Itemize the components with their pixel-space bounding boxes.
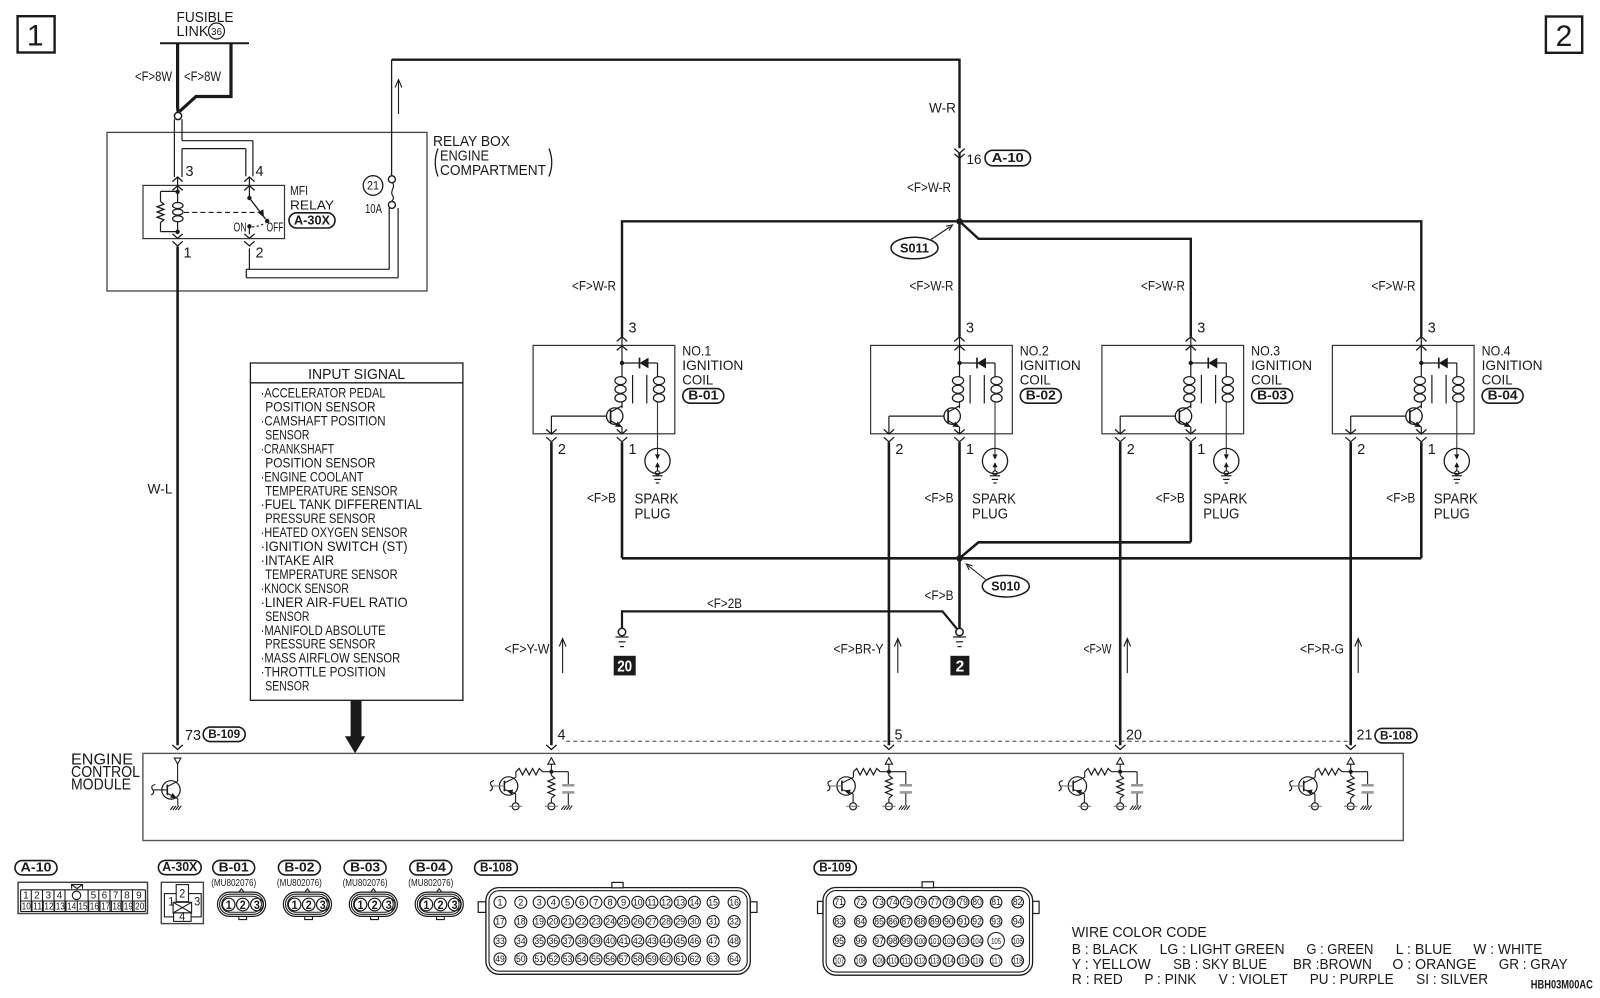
MFI relay switch	[247, 196, 251, 200]
ground point 2	[956, 628, 963, 635]
svg-text:20: 20	[135, 901, 144, 913]
svg-text:55: 55	[591, 954, 601, 964]
svg-text:17: 17	[495, 917, 505, 927]
svg-text:(MU802076): (MU802076)	[211, 877, 256, 889]
svg-text:57: 57	[619, 954, 629, 964]
svg-text:2: 2	[179, 887, 185, 901]
junction S010	[956, 555, 962, 561]
ignition coil B-03 box	[1102, 345, 1244, 433]
svg-text:80: 80	[972, 897, 982, 907]
coil B-02 secondary winding	[994, 363, 996, 377]
svg-text:18: 18	[112, 901, 121, 913]
fusible link bus bar	[160, 42, 249, 44]
svg-text:52: 52	[549, 954, 559, 964]
svg-text:37: 37	[563, 936, 573, 946]
svg-text:2: 2	[895, 441, 903, 458]
svg-text:<F>B: <F>B	[587, 490, 616, 505]
coil B-01 base wire	[551, 415, 606, 417]
MFI relay pin 4 terminal	[244, 177, 254, 182]
svg-text:10: 10	[22, 901, 31, 913]
MFI relay resistor	[160, 191, 162, 201]
spark plug 4	[1444, 448, 1469, 473]
svg-text:COIL: COIL	[682, 372, 713, 388]
svg-text:29: 29	[676, 917, 686, 927]
ECM driver 21: capacitor	[1351, 771, 1368, 773]
svg-text:100: 100	[916, 936, 926, 946]
connector A-10 pin 16 inline	[954, 149, 964, 154]
wire from No.3 coil pin 1 to ground bus	[960, 542, 1191, 558]
svg-text:10: 10	[633, 897, 643, 907]
coil B-03 core	[1200, 375, 1202, 403]
ECM driver 21: collector resistor	[1342, 771, 1351, 773]
page number box 2	[1546, 17, 1582, 53]
svg-text:97: 97	[874, 936, 884, 946]
ground bus wire	[622, 557, 1421, 560]
svg-text:2: 2	[372, 900, 378, 912]
svg-text:15: 15	[78, 901, 87, 913]
svg-text:62: 62	[690, 954, 700, 964]
wire <F>B from coil B-01 pin 1	[621, 442, 624, 558]
svg-text:59: 59	[647, 954, 657, 964]
svg-text:3: 3	[537, 897, 542, 907]
svg-text:77: 77	[930, 897, 940, 907]
svg-text:114: 114	[944, 956, 954, 966]
ECM driver circuit for pin 4: terminal	[546, 745, 556, 750]
svg-text:20: 20	[549, 917, 559, 927]
coil B-01 power transistor	[607, 408, 623, 424]
svg-text:108: 108	[855, 956, 865, 966]
svg-text:76: 76	[916, 897, 926, 907]
svg-text:5: 5	[565, 897, 570, 907]
svg-text:44: 44	[661, 936, 671, 946]
page number box 1	[18, 16, 55, 52]
svg-text:A-30X: A-30X	[162, 860, 198, 874]
svg-text:16: 16	[729, 897, 739, 907]
svg-text:109: 109	[874, 956, 884, 966]
svg-text:51: 51	[534, 954, 544, 964]
coil B-02 base wire	[889, 415, 944, 417]
svg-text:3: 3	[1197, 320, 1205, 337]
coil B-01 secondary winding	[657, 363, 659, 377]
coil B-04 pin 1 terminal	[1416, 429, 1426, 434]
svg-text:1: 1	[226, 900, 233, 912]
coil B-04 core	[1431, 375, 1433, 403]
relay box (engine compartment) outline	[107, 132, 427, 291]
svg-text:116: 116	[972, 956, 982, 966]
connector B-108 pinout	[475, 861, 518, 876]
svg-text:74: 74	[888, 897, 898, 907]
svg-text:14: 14	[67, 901, 76, 913]
svg-text:25: 25	[619, 917, 629, 927]
svg-text:101: 101	[930, 936, 940, 946]
svg-text:<F>B: <F>B	[925, 588, 954, 603]
coil B-01 pin 3 terminal	[617, 337, 627, 342]
svg-text:46: 46	[690, 936, 700, 946]
coil B-02 primary winding	[959, 363, 961, 377]
svg-text:1: 1	[292, 900, 299, 912]
svg-text:2: 2	[1127, 441, 1135, 458]
coil B-02 pin 3 terminal	[954, 337, 964, 342]
coil B-04 pin 3 terminal	[1416, 337, 1426, 342]
wire <F>Y-W coil1 pin2 to ECM pin 4	[550, 442, 553, 745]
svg-text:75: 75	[901, 897, 911, 907]
coil B-01 pin 2 terminal	[546, 429, 556, 434]
ignition coil B-01 box	[533, 345, 675, 433]
ECM pin 73 input transistor	[172, 745, 182, 750]
svg-text:<F>W-R: <F>W-R	[907, 180, 951, 195]
svg-text:61: 61	[676, 954, 686, 964]
svg-text:A-30X: A-30X	[294, 213, 331, 227]
wire <F>W coil3 pin2 to ECM pin 20	[1119, 442, 1122, 745]
svg-text:9: 9	[621, 897, 626, 907]
svg-text:1: 1	[27, 20, 44, 53]
svg-text:B-01: B-01	[688, 389, 718, 403]
svg-text:81: 81	[991, 897, 1001, 907]
ECM driver 21: emitter terminal	[1314, 794, 1316, 803]
wire from fuse to top bus	[391, 60, 393, 176]
svg-text:7: 7	[593, 897, 598, 907]
svg-text:71: 71	[834, 897, 844, 907]
svg-text:99: 99	[901, 936, 911, 946]
svg-text:49: 49	[495, 954, 505, 964]
current direction arrow	[398, 81, 400, 115]
ECM driver circuit for pin 21: terminal	[1346, 745, 1356, 750]
wire <F>8W right leg	[180, 43, 232, 111]
svg-text:82: 82	[1013, 897, 1023, 907]
svg-text:26: 26	[633, 917, 643, 927]
svg-text:<F>BR-Y: <F>BR-Y	[834, 641, 884, 656]
svg-text:50: 50	[516, 954, 526, 964]
coil B-01 diode	[620, 361, 624, 365]
wire <F>8W left leg	[176, 43, 180, 112]
svg-text:2: 2	[956, 659, 965, 676]
svg-text:16: 16	[90, 901, 99, 913]
MFI relay box outline	[143, 185, 285, 238]
coil B-03 base wire	[1120, 415, 1175, 417]
svg-text:<F>W-R: <F>W-R	[1372, 279, 1416, 294]
svg-text:60: 60	[661, 954, 671, 964]
coil B-01 core	[632, 375, 634, 403]
coil B-02 diode	[957, 361, 961, 365]
svg-text:42: 42	[633, 936, 643, 946]
svg-text:53: 53	[563, 954, 573, 964]
svg-text:<F>W-R: <F>W-R	[572, 279, 616, 294]
svg-text:SPARK: SPARK	[635, 492, 679, 508]
svg-text:<F>Y-W: <F>Y-W	[505, 641, 550, 656]
input signal box	[250, 363, 463, 700]
svg-text:RELAY: RELAY	[290, 198, 334, 213]
svg-text:111: 111	[901, 956, 911, 966]
svg-text:21: 21	[367, 181, 379, 193]
svg-text:SPARK: SPARK	[1434, 492, 1478, 508]
svg-text:IGNITION: IGNITION	[1482, 357, 1543, 373]
svg-text:2: 2	[438, 900, 444, 912]
svg-text:NO.4: NO.4	[1482, 342, 1511, 358]
ECM driver 4: capacitor	[551, 771, 568, 773]
fuse 21 10A	[363, 176, 383, 196]
svg-text:93: 93	[991, 916, 1001, 926]
svg-text:13: 13	[676, 897, 686, 907]
svg-text:4: 4	[551, 897, 556, 907]
svg-text:73: 73	[185, 728, 201, 744]
svg-text:ON: ON	[234, 221, 247, 235]
svg-text:88: 88	[916, 916, 926, 926]
svg-text:<F>2B: <F>2B	[707, 596, 742, 611]
svg-text:117: 117	[991, 956, 1001, 966]
ground point 20	[618, 628, 625, 635]
svg-text:107: 107	[834, 956, 844, 966]
connector B-04 pinout	[410, 860, 452, 875]
svg-text:45: 45	[676, 936, 686, 946]
svg-text:2: 2	[306, 900, 312, 912]
svg-text:3: 3	[629, 320, 637, 337]
ECM driver 20: capacitor	[1120, 771, 1137, 773]
svg-text:1: 1	[1197, 441, 1205, 458]
svg-text:110: 110	[888, 956, 898, 966]
svg-text:86: 86	[888, 916, 898, 926]
coil B-02 power transistor	[944, 408, 960, 424]
ECM driver 5: capacitor	[889, 771, 906, 773]
svg-text:A-10: A-10	[21, 859, 52, 874]
svg-text:2: 2	[518, 897, 523, 907]
svg-text:COIL: COIL	[1020, 372, 1051, 388]
svg-text:19: 19	[534, 917, 544, 927]
svg-text:B-02: B-02	[1026, 389, 1056, 403]
svg-text:94: 94	[1013, 916, 1023, 926]
svg-text:IGNITION: IGNITION	[1251, 357, 1312, 373]
svg-text:INPUT SIGNAL: INPUT SIGNAL	[308, 367, 405, 383]
svg-text:PLUG: PLUG	[1434, 506, 1470, 522]
svg-text:115: 115	[958, 956, 968, 966]
svg-text:24: 24	[605, 917, 615, 927]
svg-text:SPARK: SPARK	[1203, 492, 1247, 508]
svg-text:43: 43	[647, 936, 657, 946]
input signal arrow to ECM	[345, 701, 365, 754]
MFI relay pin 2 terminal	[248, 226, 250, 234]
svg-text:IGNITION: IGNITION	[682, 357, 743, 373]
ECM driver 5: collector resistor	[880, 771, 889, 773]
coil B-04 primary winding	[1420, 363, 1422, 377]
ignition coil B-02 box	[871, 345, 1013, 433]
svg-text:6: 6	[579, 897, 584, 907]
svg-text:102: 102	[944, 936, 954, 946]
coil B-04 power transistor	[1406, 408, 1422, 424]
coil B-03 primary winding	[1190, 363, 1192, 377]
spark plug 3	[1214, 448, 1239, 473]
svg-text:(MU802076): (MU802076)	[343, 877, 388, 889]
svg-text:89: 89	[930, 916, 940, 926]
hollow wire from MFI relay pin 2 to fuse	[248, 248, 250, 269]
svg-text:12: 12	[661, 897, 671, 907]
svg-text:B-03: B-03	[350, 860, 380, 874]
coil B-03 diode	[1189, 361, 1193, 365]
svg-text:17: 17	[101, 901, 110, 913]
svg-text:B-108: B-108	[1380, 728, 1412, 742]
svg-text:48: 48	[729, 936, 739, 946]
svg-text:<F>R-G: <F>R-G	[1300, 641, 1344, 656]
svg-text:118: 118	[1013, 956, 1023, 966]
svg-text:19: 19	[124, 901, 133, 913]
svg-text:30: 30	[690, 917, 700, 927]
wire <F>R-G coil4 pin2 to ECM pin 21	[1349, 442, 1352, 745]
MFI relay connector A-30X capsule	[289, 213, 335, 228]
svg-text:<F>B: <F>B	[925, 490, 954, 505]
MFI relay coil	[175, 190, 179, 194]
svg-text:1: 1	[358, 900, 365, 912]
coil B-02 pin 1 terminal	[954, 429, 964, 434]
svg-text:PU : PURPLE: PU : PURPLE	[1310, 971, 1394, 988]
svg-text:HBH03M00AC: HBH03M00AC	[1531, 978, 1593, 992]
svg-text:V : VIOLET: V : VIOLET	[1219, 971, 1288, 988]
svg-text:98: 98	[888, 936, 898, 946]
svg-text:NO.2: NO.2	[1020, 342, 1049, 358]
connector B-109 pinout	[814, 861, 856, 875]
svg-text:15: 15	[708, 897, 718, 907]
ECM driver 5: emitter terminal	[852, 794, 854, 803]
svg-text:104: 104	[972, 936, 982, 946]
svg-text:14: 14	[690, 897, 700, 907]
svg-text:11: 11	[647, 897, 657, 907]
svg-text:1: 1	[966, 441, 974, 458]
svg-text:<F>8W: <F>8W	[135, 69, 172, 84]
svg-text:SI : SILVER: SI : SILVER	[1416, 971, 1488, 988]
ECM driver 21: pull resistor	[1350, 772, 1352, 776]
svg-text:85: 85	[874, 916, 884, 926]
connector A-10 pinout	[15, 861, 57, 875]
svg-text:84: 84	[856, 916, 866, 926]
svg-text:PLUG: PLUG	[1203, 506, 1239, 522]
svg-text:58: 58	[633, 954, 643, 964]
svg-text:COMPARTMENT: COMPARTMENT	[440, 162, 546, 179]
coil B-04 secondary winding	[1456, 363, 1458, 377]
coil B-01 primary winding	[621, 363, 623, 377]
svg-text:<F>B: <F>B	[1156, 490, 1185, 505]
svg-text:2: 2	[240, 900, 246, 912]
svg-text:10A: 10A	[365, 202, 382, 216]
svg-text:8: 8	[608, 897, 613, 907]
svg-text:3: 3	[186, 163, 194, 180]
svg-text:105: 105	[991, 936, 1001, 946]
engine control module box	[143, 753, 1403, 840]
svg-text:B-108: B-108	[480, 861, 512, 875]
svg-text:COIL: COIL	[1251, 372, 1282, 388]
svg-text:33: 33	[495, 936, 505, 946]
svg-text:16: 16	[967, 151, 982, 167]
ECM driver 4: transistor	[499, 777, 517, 795]
svg-text:41: 41	[619, 936, 629, 946]
ECM driver 5: transistor	[837, 777, 855, 795]
svg-text:40: 40	[605, 936, 615, 946]
svg-text:11: 11	[33, 901, 42, 913]
svg-text:4: 4	[179, 910, 185, 924]
svg-text:W-R: W-R	[929, 101, 956, 116]
svg-text:B-109: B-109	[819, 860, 851, 874]
wire <F>W-R to S011	[958, 153, 960, 221]
svg-text:63: 63	[708, 954, 718, 964]
wire <F>B from coil B-04 pin 1	[1420, 442, 1423, 558]
svg-text:P : PINK: P : PINK	[1144, 971, 1196, 988]
svg-text:<F>B: <F>B	[1386, 490, 1415, 505]
svg-text:NO.1: NO.1	[682, 342, 711, 358]
wire W-R to No.4 ignition coil	[960, 221, 1422, 336]
svg-text:112: 112	[916, 956, 926, 966]
svg-text:<F>8W: <F>8W	[184, 69, 221, 84]
ECM driver 4: collector resistor	[543, 771, 552, 773]
coil B-03 pin 3 terminal	[1186, 337, 1196, 342]
svg-text:12: 12	[44, 901, 53, 913]
svg-text:PLUG: PLUG	[972, 506, 1008, 522]
MFI relay armature dashed link	[184, 211, 259, 213]
svg-text:18: 18	[516, 917, 526, 927]
MFI relay pin 3 terminal	[172, 177, 182, 182]
svg-text:<F>W-R: <F>W-R	[910, 279, 954, 294]
svg-text:SPARK: SPARK	[972, 492, 1016, 508]
svg-text:R : RED: R : RED	[1072, 971, 1123, 988]
wire <F>B from coil B-03 pin 1	[1190, 442, 1193, 542]
ECM driver circuit for pin 20: terminal	[1115, 745, 1125, 750]
svg-text:(MU802076): (MU802076)	[277, 877, 322, 889]
svg-text:36: 36	[211, 26, 222, 38]
ECM driver 20: collector resistor	[1111, 771, 1120, 773]
svg-text:<F>W-R: <F>W-R	[1141, 279, 1185, 294]
svg-text:103: 103	[958, 936, 968, 946]
coil B-03 pin 2 terminal	[1115, 429, 1125, 434]
svg-text:34: 34	[516, 936, 526, 946]
svg-text:3: 3	[1428, 320, 1436, 337]
ECM driver 5: pull resistor	[888, 772, 890, 776]
wire W-R to No.2 ignition coil	[958, 221, 960, 336]
svg-text:3: 3	[320, 900, 326, 912]
svg-text:32: 32	[729, 917, 739, 927]
svg-text:90: 90	[944, 916, 954, 926]
svg-text:B-04: B-04	[1488, 389, 1518, 403]
svg-text:87: 87	[901, 916, 911, 926]
svg-text:36: 36	[549, 936, 559, 946]
svg-text:4: 4	[558, 728, 566, 744]
coil B-03 power transistor	[1175, 408, 1191, 424]
wire <F>2B jumper to ground 20	[622, 611, 957, 628]
ECM driver 20: transistor	[1068, 777, 1086, 795]
ignition coil B-04 box	[1332, 345, 1474, 433]
svg-text:3: 3	[194, 895, 200, 909]
svg-text:OFF: OFF	[267, 221, 284, 235]
svg-text:2: 2	[558, 441, 566, 458]
connector B-02 pinout	[278, 860, 320, 875]
svg-text:(MU802076): (MU802076)	[408, 877, 453, 889]
svg-text:B-04: B-04	[416, 860, 446, 874]
ECM driver 20: emitter terminal	[1083, 794, 1085, 803]
wire W-R to No.3 ignition coil	[960, 221, 1191, 336]
svg-text:95: 95	[834, 936, 844, 946]
svg-text:3: 3	[452, 900, 458, 912]
ECM driver 20: pull resistor	[1119, 772, 1121, 776]
spark plug 1	[645, 448, 670, 473]
svg-text:39: 39	[591, 936, 601, 946]
spark plug 2	[982, 448, 1007, 473]
svg-text:A-10: A-10	[992, 151, 1024, 165]
svg-text:2: 2	[1357, 441, 1365, 458]
wire <F>B from coil B-02 pin 1	[958, 442, 961, 558]
svg-text:73: 73	[874, 897, 884, 907]
svg-text:47: 47	[708, 936, 718, 946]
svg-text:106: 106	[1013, 936, 1023, 946]
ECM driver circuit for pin 5: terminal	[884, 745, 894, 750]
svg-text:B-03: B-03	[1257, 389, 1287, 403]
svg-text:SENSOR: SENSOR	[265, 678, 309, 694]
coil B-04 diode	[1419, 361, 1423, 365]
MFI relay pin 1 terminal	[177, 232, 179, 234]
connector A-30X pinout	[158, 860, 201, 874]
